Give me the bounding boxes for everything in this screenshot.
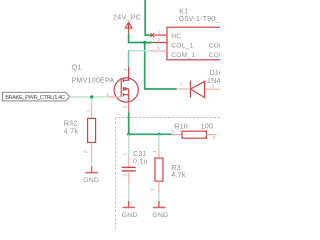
no-connect X at relay pin 1 [150, 33, 154, 37]
net flag BRAKE_PWR_CTRL/1.4C [3, 92, 70, 101]
junction gate net [90, 95, 93, 98]
cathode bar [189, 81, 191, 98]
wire COM_1 to Q1 drain (pale) [129, 50, 153, 52]
bulk arrow head [124, 87, 129, 91]
wire to C31 (pale) [128, 134, 130, 156]
svg-text:1N41: 1N41 [207, 77, 220, 85]
drain elbow [123, 78, 128, 80]
wire R32 to GND (pale) [91, 159, 93, 167]
wire gate net down to R32 (pale) [91, 97, 93, 103]
resistor R32 [83, 103, 96, 159]
channel segments [122, 79, 124, 97]
wire R3 to GND (pale) [158, 192, 160, 201]
svg-text:2: 2 [122, 174, 128, 177]
source elbow [123, 95, 128, 102]
Q1 drain pin [128, 67, 130, 79]
gate bar [120, 80, 122, 97]
svg-text:5: 5 [157, 45, 160, 51]
svg-text:1: 1 [180, 82, 183, 88]
svg-text:4.7k: 4.7k [171, 171, 186, 179]
relay K1 box [167, 27, 227, 60]
wire 24V_PC stem to rail [129, 33, 153, 42]
svg-text:2: 2 [123, 105, 129, 108]
transistor Q1 (n-mosfet) [114, 78, 138, 102]
wire Q1 source to lower rail [129, 112, 172, 134]
svg-text:D16: D16 [210, 69, 221, 77]
relay pin 1 stub [154, 34, 167, 36]
svg-text:BRAKE_PWR_CTRL/1.4C: BRAKE_PWR_CTRL/1.4C [5, 95, 65, 101]
svg-text:0.1u: 0.1u [133, 157, 148, 165]
dashed sheet/frame border [116, 118, 221, 230]
diode pin stubs [177, 88, 190, 90]
svg-text:2: 2 [158, 37, 161, 43]
svg-text:2: 2 [83, 150, 89, 153]
svg-text:1: 1 [158, 30, 161, 36]
svg-text:GND: GND [122, 212, 138, 219]
triangle anode [191, 81, 205, 97]
diode D1 [190, 81, 204, 98]
relay pin 2 stub [152, 42, 167, 44]
svg-text:24V_PC: 24V_PC [113, 13, 142, 22]
wire gate net (pale) [70, 96, 108, 98]
svg-text:1: 1 [152, 150, 158, 153]
svg-text:1: 1 [123, 153, 129, 156]
svg-text:Q1: Q1 [72, 63, 82, 72]
bulk line [123, 89, 128, 95]
svg-text:GND: GND [152, 212, 168, 219]
wire C31 to GND (pale) [128, 185, 130, 201]
resistor R3 [150, 147, 163, 192]
ground GND (C31) [122, 201, 138, 219]
svg-text:2: 2 [150, 188, 156, 191]
svg-text:GND: GND [83, 177, 99, 184]
junction 24V rail [143, 41, 146, 44]
svg-text:COM_2: COM_2 [209, 52, 220, 59]
ground GND (R3) [152, 201, 168, 219]
ground GND (R32) [83, 167, 99, 185]
wire to R3 (pale) [158, 134, 160, 147]
svg-text:G5V-1-T90_1: G5V-1-T90_1 [179, 15, 220, 23]
svg-text:PMV100EPA: PMV100EPA [72, 77, 115, 85]
svg-text:COL_1: COL_1 [171, 43, 193, 50]
junction lower rail left [127, 133, 130, 136]
svg-text:R16: R16 [174, 122, 188, 130]
power symbol 24V_PC [113, 13, 142, 34]
svg-text:2: 2 [213, 135, 216, 141]
capacitor C31 [122, 153, 136, 186]
relay pin 5 stub (pale) [152, 50, 167, 52]
wire 24V rail down to diode [145, 43, 177, 90]
junction lower rail right [157, 133, 160, 136]
wire 24V net vertical from top edge [145, 0, 150, 35]
svg-text:NC: NC [171, 33, 181, 40]
relay pin numbers [157, 30, 160, 52]
svg-text:COM_1: COM_1 [171, 52, 195, 59]
svg-text:4.7k: 4.7k [64, 127, 79, 135]
wire drain riser [128, 50, 130, 67]
svg-text:1: 1 [86, 109, 92, 112]
resistor R16 [171, 129, 217, 142]
svg-text:100: 100 [201, 122, 214, 130]
Q1 source pin [128, 102, 130, 113]
svg-text:3: 3 [123, 68, 129, 71]
svg-text:COL_2: COL_2 [209, 43, 220, 50]
Q1 gate pin (pale red) [107, 96, 121, 98]
